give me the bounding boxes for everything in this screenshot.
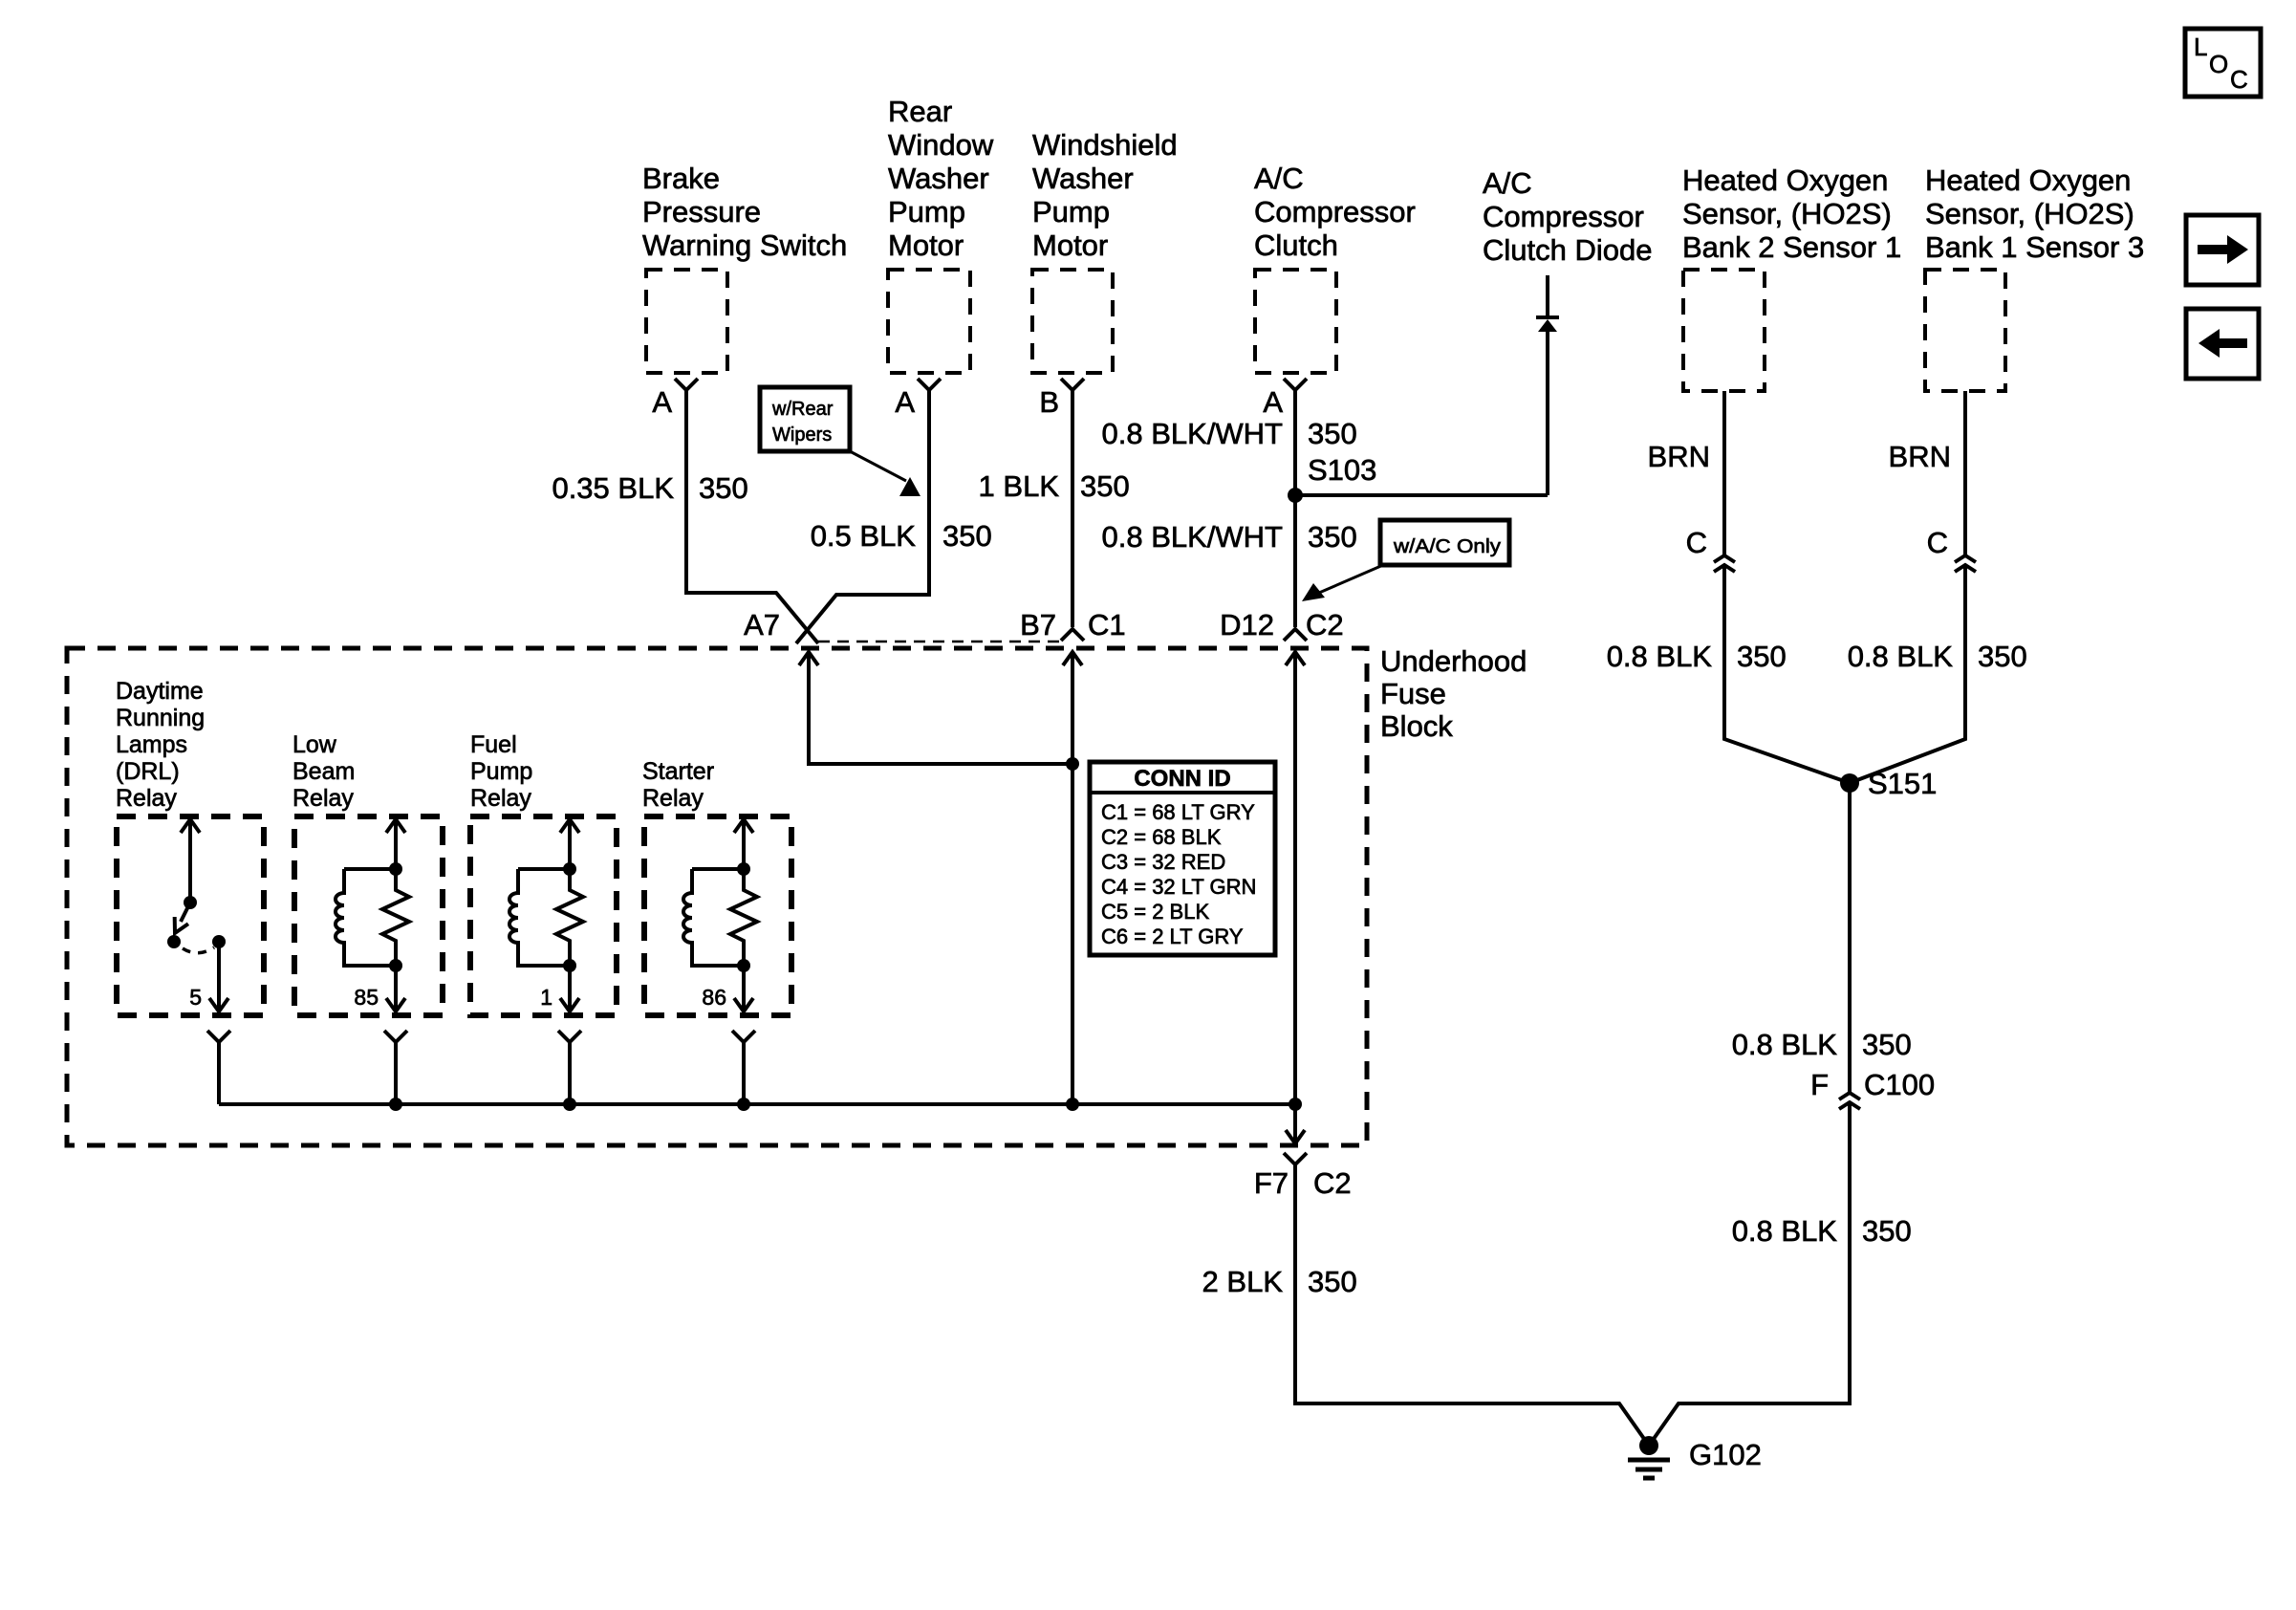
arrow entry D12	[1286, 652, 1305, 665]
svg-text:350: 350	[1862, 1028, 1912, 1061]
svg-text:Compressor: Compressor	[1254, 195, 1416, 228]
connector A rear washer	[918, 379, 941, 390]
svg-text:C2 = 68 BLK: C2 = 68 BLK	[1101, 825, 1222, 849]
w/Rear Wipers callout box	[760, 387, 921, 496]
svg-text:B7: B7	[1020, 608, 1056, 642]
svg-text:1: 1	[540, 985, 552, 1010]
svg-text:A/C: A/C	[1254, 162, 1304, 195]
svg-text:CONN ID: CONN ID	[1134, 766, 1230, 792]
LOC box	[2185, 29, 2261, 97]
svg-text:S103: S103	[1308, 453, 1376, 487]
label Underhood Fuse Block	[1380, 644, 1527, 743]
svg-text:0.8 BLK/WHT: 0.8 BLK/WHT	[1102, 520, 1284, 554]
wire S151 down	[1848, 783, 1852, 1093]
fuel pump relay internals	[509, 819, 583, 1111]
svg-text:350: 350	[942, 519, 992, 553]
svg-text:Daytime: Daytime	[116, 678, 204, 705]
svg-text:5: 5	[189, 985, 202, 1010]
junction dot D12 wire to ground bus	[1289, 1098, 1302, 1111]
svg-text:Rear: Rear	[888, 95, 952, 128]
svg-text:C4 = 32 LT GRN: C4 = 32 LT GRN	[1101, 875, 1256, 899]
switch arm with arrowhead	[181, 903, 190, 922]
svg-text:1 BLK: 1 BLK	[979, 469, 1060, 503]
wire HO2S bank2 BRN	[1722, 391, 1726, 555]
svg-text:O: O	[2209, 50, 2228, 78]
connector B windshield washer	[1061, 379, 1084, 390]
exit arrow F7	[1293, 1104, 1297, 1143]
svg-text:B: B	[1039, 385, 1059, 419]
svg-text:2 BLK: 2 BLK	[1202, 1265, 1284, 1298]
svg-text:G102: G102	[1689, 1438, 1762, 1471]
DRL relay box	[117, 816, 264, 1015]
svg-text:350: 350	[1737, 640, 1787, 673]
left arrow box	[2186, 309, 2259, 379]
connector A brake	[675, 379, 698, 390]
wire S103 to diode	[1295, 493, 1548, 497]
svg-text:350: 350	[1308, 1265, 1357, 1298]
wire below C100	[1649, 1102, 1850, 1446]
label Heated Oxygen Sensor (HO2S) Bank 1 Sensor 3	[1925, 163, 2144, 264]
splice S151	[1840, 773, 1859, 793]
svg-text:Heated Oxygen: Heated Oxygen	[1682, 163, 1888, 197]
svg-text:Pressure: Pressure	[642, 195, 761, 228]
svg-text:BRN: BRN	[1648, 440, 1710, 473]
svg-text:Fuel: Fuel	[470, 731, 517, 758]
svg-text:C: C	[1686, 526, 1707, 559]
svg-text:Relay: Relay	[642, 785, 704, 812]
svg-text:Compressor: Compressor	[1483, 200, 1644, 233]
svg-text:350: 350	[1308, 417, 1357, 450]
svg-text:L: L	[2194, 33, 2207, 61]
label A/C Compressor Clutch	[1254, 162, 1416, 262]
wire 0.8 BLK left	[1724, 565, 1850, 783]
diode A/C compressor clutch diode	[1536, 275, 1559, 495]
svg-text:Sensor, (HO2S): Sensor, (HO2S)	[1925, 197, 2134, 230]
svg-text:A7: A7	[744, 608, 780, 642]
svg-text:w/A/C Only: w/A/C Only	[1393, 536, 1501, 557]
label A/C Compressor Clutch Diode	[1483, 166, 1652, 267]
thin dashed optional wire from A7 X to B7	[818, 641, 1059, 643]
svg-text:C5 = 2 BLK: C5 = 2 BLK	[1101, 900, 1209, 924]
svg-text:Windshield: Windshield	[1032, 128, 1178, 162]
label Daytime Running Lamps (DRL) Relay	[116, 678, 205, 812]
svg-text:S151: S151	[1868, 767, 1937, 800]
svg-text:Relay: Relay	[470, 785, 531, 812]
starter relay box	[644, 816, 791, 1015]
fuel pump relay box	[470, 816, 617, 1015]
dashed travel arc	[183, 947, 214, 953]
svg-text:Warning Switch: Warning Switch	[642, 228, 847, 262]
svg-text:Pump: Pump	[470, 758, 532, 785]
label Brake Pressure Warning Switch	[642, 162, 847, 262]
svg-text:w/Rear: w/Rear	[771, 399, 834, 420]
svg-text:Pump: Pump	[1032, 195, 1110, 228]
svg-text:350: 350	[699, 471, 748, 505]
connector chevron D12 entry	[1284, 629, 1307, 641]
connector chevron B7 entry	[1061, 629, 1084, 641]
wire D12 inside block	[1293, 652, 1297, 1104]
svg-text:0.8 BLK: 0.8 BLK	[1848, 640, 1954, 673]
wire rear washer 0.5 BLK	[796, 390, 929, 643]
HO2S bank 2 sensor 1 box	[1683, 270, 1765, 391]
svg-text:Bank 1 Sensor 3: Bank 1 Sensor 3	[1925, 230, 2144, 264]
svg-text:C1: C1	[1088, 608, 1126, 642]
label Rear Window Washer Pump Motor	[888, 95, 994, 262]
svg-text:BRN: BRN	[1889, 440, 1951, 473]
svg-text:C: C	[2230, 65, 2248, 94]
svg-text:C1 = 68 LT GRY: C1 = 68 LT GRY	[1101, 800, 1255, 824]
output wire with down arrow	[217, 942, 221, 1012]
svg-text:Brake: Brake	[642, 162, 720, 195]
svg-text:Washer: Washer	[1032, 162, 1134, 195]
svg-text:Running: Running	[116, 705, 205, 731]
svg-text:Underhood: Underhood	[1380, 644, 1527, 678]
svg-text:C3 = 32 RED: C3 = 32 RED	[1101, 850, 1225, 874]
wire HO2S bank1 BRN	[1963, 391, 1967, 555]
svg-text:Window: Window	[888, 128, 994, 162]
Y connector below DRL box	[207, 1031, 230, 1042]
label Starter Relay	[642, 758, 714, 812]
connector chevron F7 below block	[1284, 1153, 1307, 1164]
low beam relay internals	[336, 819, 409, 1111]
svg-text:A: A	[652, 385, 672, 419]
svg-text:Wipers: Wipers	[772, 424, 832, 446]
windshield washer pump motor box	[1032, 270, 1113, 373]
svg-text:Lamps: Lamps	[116, 731, 187, 758]
svg-text:F: F	[1810, 1068, 1829, 1101]
label Heated Oxygen Sensor (HO2S) Bank 2 Sensor 1	[1682, 163, 1901, 264]
wire B7 inside block	[1071, 652, 1074, 1104]
svg-text:D12: D12	[1220, 608, 1274, 642]
rear window washer pump motor box	[888, 270, 970, 373]
svg-text:Pump: Pump	[888, 195, 965, 228]
svg-text:Washer: Washer	[888, 162, 989, 195]
brake pressure warning switch box	[646, 270, 727, 373]
starter relay internals	[683, 819, 757, 1111]
wire brake 0.35 BLK	[686, 390, 818, 643]
svg-text:Block: Block	[1380, 709, 1453, 743]
svg-text:Motor: Motor	[1032, 228, 1108, 262]
wire A7 inside block	[809, 652, 1072, 764]
svg-text:350: 350	[1862, 1214, 1912, 1248]
svg-text:0.8 BLK: 0.8 BLK	[1732, 1214, 1838, 1248]
wire windshield 1 BLK	[1071, 390, 1074, 627]
connector C right	[1955, 555, 1976, 572]
svg-text:Heated Oxygen: Heated Oxygen	[1925, 163, 2131, 197]
ground G102	[1628, 1436, 1762, 1478]
arrow entry A7	[799, 652, 818, 665]
svg-text:0.8 BLK: 0.8 BLK	[1607, 640, 1713, 673]
svg-text:350: 350	[1308, 520, 1357, 554]
svg-text:Beam: Beam	[292, 758, 355, 785]
connector C100	[1839, 1093, 1860, 1109]
svg-text:Bank 2 Sensor 1: Bank 2 Sensor 1	[1682, 230, 1901, 264]
svg-text:350: 350	[1978, 640, 2027, 673]
svg-text:Sensor, (HO2S): Sensor, (HO2S)	[1682, 197, 1892, 230]
svg-text:0.8 BLK/WHT: 0.8 BLK/WHT	[1102, 417, 1284, 450]
svg-text:Motor: Motor	[888, 228, 964, 262]
svg-text:A: A	[1263, 385, 1283, 419]
svg-text:0.8 BLK: 0.8 BLK	[1732, 1028, 1838, 1061]
switch common arrow up	[188, 819, 192, 903]
junction dot A7 branch to windshield wire	[1066, 757, 1079, 771]
svg-text:A: A	[895, 385, 915, 419]
svg-text:C: C	[1927, 526, 1948, 559]
wire 0.8 BLK right	[1850, 565, 1965, 783]
wire 2 BLK to G102	[1295, 1164, 1649, 1446]
svg-text:C2: C2	[1306, 608, 1344, 642]
svg-text:Clutch Diode: Clutch Diode	[1483, 233, 1652, 267]
svg-text:Clutch: Clutch	[1254, 228, 1338, 262]
right arrow box	[2186, 215, 2259, 285]
svg-text:Fuse: Fuse	[1380, 677, 1446, 710]
svg-text:Low: Low	[292, 731, 337, 758]
S103 junction dot	[1288, 488, 1303, 503]
svg-text:0.35 BLK: 0.35 BLK	[552, 471, 674, 505]
svg-text:Relay: Relay	[292, 785, 354, 812]
svg-text:85: 85	[354, 985, 379, 1010]
svg-text:C6 = 2 LT GRY: C6 = 2 LT GRY	[1101, 925, 1244, 948]
label Low Beam Relay	[292, 731, 355, 812]
svg-text:0.5 BLK: 0.5 BLK	[811, 519, 917, 553]
w/A/C Only callout box	[1302, 520, 1509, 601]
connector A A/C clutch	[1284, 379, 1307, 390]
svg-text:(DRL): (DRL)	[116, 758, 180, 785]
svg-text:F7: F7	[1254, 1166, 1289, 1200]
wire A/C clutch 0.8 BLK/WHT	[1293, 390, 1297, 627]
label Fuel Pump Relay	[470, 731, 532, 812]
low beam relay box	[294, 816, 443, 1015]
svg-text:Starter: Starter	[642, 758, 714, 785]
svg-text:C100: C100	[1864, 1068, 1935, 1101]
svg-text:86: 86	[702, 985, 726, 1010]
svg-text:Relay: Relay	[116, 785, 177, 812]
HO2S bank 1 sensor 3 box	[1925, 270, 2005, 391]
connector C left	[1714, 555, 1735, 572]
svg-text:A/C: A/C	[1483, 166, 1532, 200]
A/C compressor clutch box	[1255, 270, 1336, 373]
wire crossing X at A7	[796, 595, 836, 643]
junction dot windshield wire to ground bus	[1066, 1098, 1079, 1111]
label Windshield Washer Pump Motor	[1032, 128, 1178, 262]
arrow entry B7	[1063, 652, 1082, 665]
svg-text:C2: C2	[1313, 1166, 1352, 1200]
svg-text:350: 350	[1080, 469, 1130, 503]
